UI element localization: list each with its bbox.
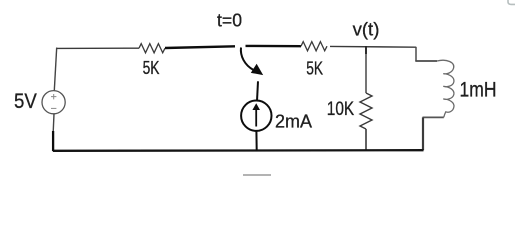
wire right vertical down (422, 117, 424, 150)
wire coil bottom horizontal (423, 116, 444, 118)
minus mark (51, 107, 56, 109)
wire 10K to bottom (365, 129, 367, 151)
svg-text:5V: 5V (14, 90, 37, 113)
svg-text:t=0: t=0 (217, 11, 242, 31)
wire junction down to 10K (365, 47, 367, 93)
svg-text:5K: 5K (306, 59, 323, 79)
svg-text:v(t): v(t) (353, 19, 380, 39)
resistor R3 10K (vertical) (360, 93, 372, 129)
wire left vertical lower thin (52, 114, 55, 132)
cursor underscore mark (243, 174, 271, 176)
wire resistor to top-right (330, 45, 416, 48)
wire switch arm to current source (257, 81, 258, 101)
source I1 2mA circle (241, 101, 271, 131)
plus mark (51, 94, 56, 99)
resistor R2 5K (right) (301, 42, 327, 51)
switch arc (241, 48, 254, 71)
svg-text:5K: 5K (143, 58, 160, 78)
wire left vertical upper (54, 48, 56, 91)
svg-text:1mH: 1mH (460, 78, 497, 102)
ui corner mark top-right (508, 0, 515, 4)
resistor R1 5K (left) (139, 44, 165, 53)
node v(t) junction tick (365, 47, 367, 55)
wire step horizontal to coil (415, 60, 437, 62)
wire left vertical lower thick (52, 131, 54, 151)
switch arrowhead (252, 65, 262, 74)
svg-text:10K: 10K (327, 99, 355, 120)
wire switch to resistor (thick) (246, 45, 302, 48)
arrow inside current source (255, 107, 257, 127)
wire resistor to switch (thick) (165, 46, 235, 48)
svg-text:2mA: 2mA (275, 112, 312, 132)
inductor L1 coil (437, 60, 454, 117)
source V1 5V circle (42, 91, 65, 114)
wire top-left horizontal (57, 47, 140, 49)
wire bottom bus (53, 149, 424, 152)
wire current source to bottom (255, 131, 257, 151)
wire top-right step down (415, 47, 417, 61)
